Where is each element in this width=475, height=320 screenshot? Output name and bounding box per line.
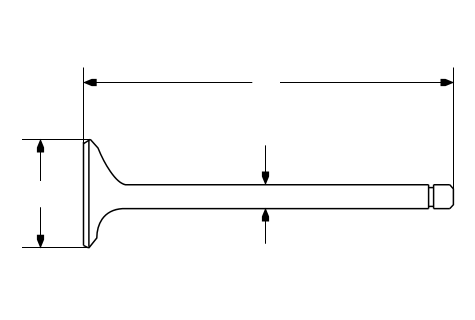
- extension line left (overall length dimension): [83, 68, 85, 144]
- keeper groove bottom edge: [429, 205, 434, 207]
- arrowhead up onto stem (stem diameter): [262, 209, 268, 221]
- keeper groove top edge: [429, 187, 434, 189]
- arrowhead left (overall length): [84, 79, 96, 85]
- dimension line head diameter, lower segment: [40, 207, 42, 247]
- dimension line head diameter, upper segment: [40, 140, 42, 181]
- head top seat face and fillet into stem, stem top line: [90, 139, 428, 184]
- stem tip bottom edge: [434, 208, 450, 210]
- stem tip end chamfers and end face: [450, 185, 454, 209]
- dimension line stem diameter, lower segment: [265, 209, 267, 244]
- valve head face (left vertical): [83, 142, 85, 245]
- dimension line overall length, right segment: [280, 82, 454, 84]
- stem tip top edge: [434, 184, 450, 186]
- arrowhead down onto stem (stem diameter): [262, 172, 268, 184]
- arrowhead down (head diameter): [37, 235, 43, 247]
- arrowhead up (head diameter): [37, 140, 43, 152]
- valve head margin edge (inner vertical): [88, 139, 90, 247]
- extension line top (head diameter dimension): [22, 139, 90, 141]
- dimension line overall length, left segment: [84, 82, 252, 84]
- head bottom seat face and fillet into stem, stem bottom line: [89, 209, 429, 248]
- extension line bottom (head diameter dimension): [22, 247, 90, 249]
- arrowhead right (overall length): [441, 79, 453, 85]
- stem tip left face: [433, 185, 435, 209]
- keeper groove left shoulder: [428, 185, 430, 209]
- extension line right (overall length dimension): [453, 68, 455, 190]
- head bottom chamfer: [84, 245, 89, 248]
- dimension line stem diameter, upper segment: [265, 145, 267, 183]
- head top chamfer: [84, 139, 91, 143]
